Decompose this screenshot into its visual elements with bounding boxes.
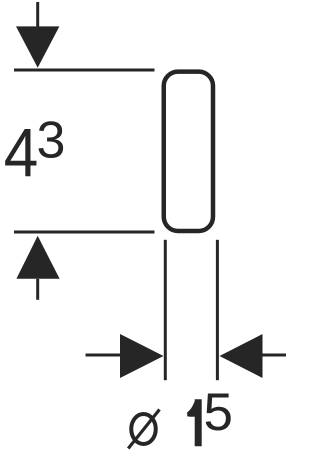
svg-text:3: 3 xyxy=(37,112,66,170)
diameter symbol ring xyxy=(131,414,156,444)
top dimension line xyxy=(14,69,155,72)
pill outline (product) xyxy=(164,72,213,231)
left arrow tail line xyxy=(86,354,122,357)
bottom arrow head (up) xyxy=(16,236,59,279)
left arrow head (right) xyxy=(120,334,164,378)
svg-text:4: 4 xyxy=(4,114,39,191)
left extension line xyxy=(164,240,167,380)
top arrow head (down) xyxy=(16,26,59,67)
right extension line xyxy=(216,240,219,380)
svg-text:5: 5 xyxy=(204,383,233,442)
right arrow head (left) xyxy=(220,334,263,378)
bottom dimension line xyxy=(14,231,155,234)
right arrow tail line xyxy=(262,354,286,357)
dimension text 1 xyxy=(187,399,202,446)
diameter symbol slash xyxy=(128,410,159,449)
top arrow tail line xyxy=(36,2,39,27)
bottom arrow tail line xyxy=(36,279,39,300)
